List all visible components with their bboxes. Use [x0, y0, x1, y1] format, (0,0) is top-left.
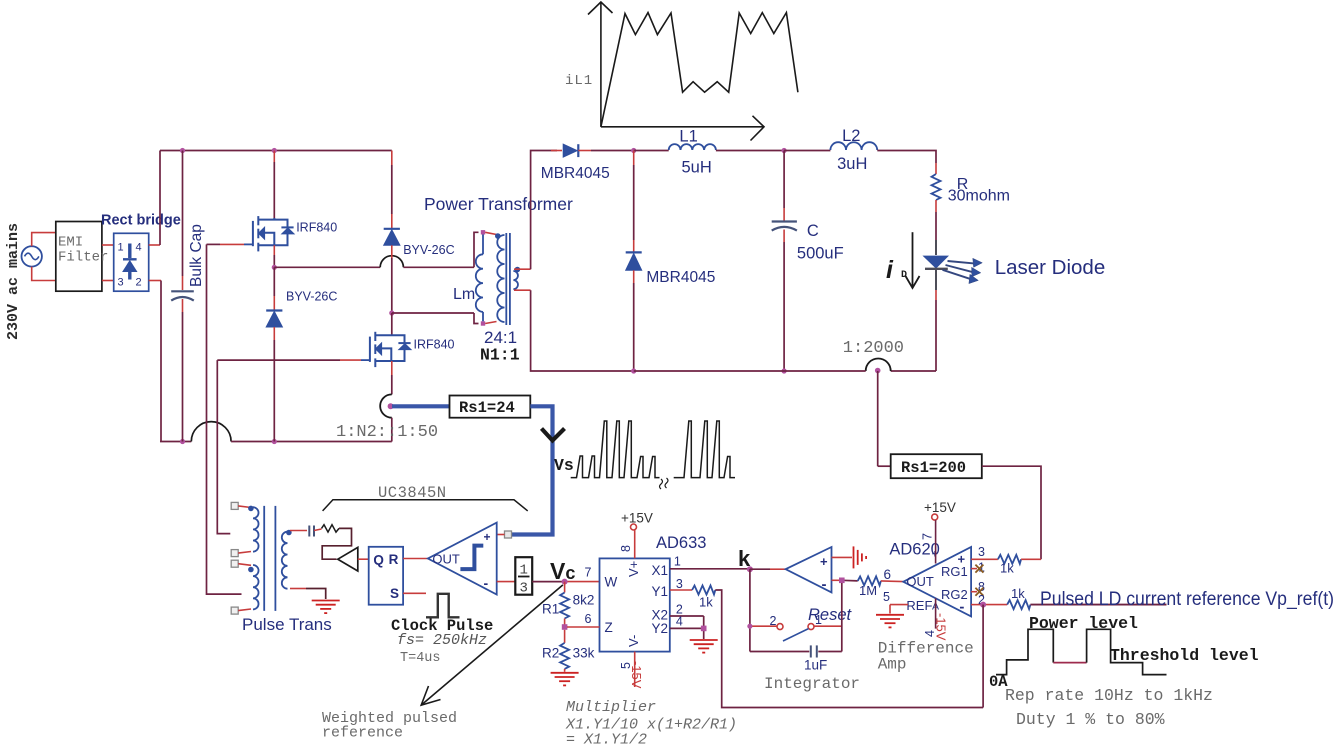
node bottom rail C: [782, 368, 787, 373]
Vs waveform group 1: [571, 421, 660, 478]
wire secondary left vertical lower: [531, 290, 634, 371]
svg-text:Y1: Y1: [652, 584, 669, 599]
resistor R2 33k: [564, 630, 566, 643]
node CT tap: [875, 368, 881, 374]
node top rail D4: [631, 148, 636, 153]
ground X2Y2: [690, 640, 718, 653]
flip-flop box: [369, 547, 403, 605]
svg-text:-: -: [822, 576, 827, 593]
Vs waveform group 2: [674, 421, 735, 478]
wire Y1 pin3 to 1k: [670, 589, 692, 591]
svg-text:Multiplier: Multiplier: [566, 699, 656, 716]
resistor R 30mohm: [935, 163, 937, 174]
inductor L2: [830, 142, 877, 150]
svg-text:3: 3: [676, 577, 683, 591]
wire primary bottom stub: [485, 322, 496, 324]
laser emission arrows: [943, 258, 983, 283]
core T1: [505, 233, 507, 325]
wire C node to L2: [784, 150, 830, 152]
svg-text:3: 3: [118, 277, 124, 289]
diode D4 MBR4045 (freewheel): [633, 151, 635, 166]
svg-text:BYV-26C: BYV-26C: [286, 290, 337, 304]
wire laser diode cathode down: [935, 269, 937, 290]
wire bottom rail right segment: [891, 370, 936, 372]
svg-text:8k2: 8k2: [573, 593, 595, 608]
buffer driver triangle: [338, 547, 358, 571]
node Rs1=24 tap: [388, 403, 394, 409]
wire R to laser diode: [935, 212, 937, 240]
step icon: [460, 546, 483, 570]
wire bridge pin4 to top rail: [149, 244, 160, 246]
pin T1 primary top: [481, 230, 485, 234]
wire Y2 pin4: [670, 627, 704, 629]
wire top rail: [160, 150, 392, 152]
diode D1 BYV-26C right: [391, 151, 393, 166]
svg-text:1: 1: [118, 242, 124, 254]
svg-text:iL1: iL1: [565, 73, 593, 89]
wire w2 bottom stub: [238, 609, 251, 611]
node Q1 source: [272, 265, 277, 270]
pin pulse trans w1 top: [231, 502, 238, 509]
wire bridge pin2 to bottom rail: [149, 280, 161, 282]
arrow i_D: [912, 232, 914, 287]
svg-text:1k: 1k: [1011, 586, 1025, 601]
svg-text:Pulse Trans: Pulse Trans: [242, 615, 332, 634]
node dot w2: [248, 567, 254, 573]
wire X1 pin1 to k: [670, 568, 750, 570]
svg-text:R2: R2: [542, 646, 559, 661]
svg-text:Lm: Lm: [453, 286, 475, 303]
node dot w1: [248, 506, 254, 512]
svg-text:Duty 1 % to 80%: Duty 1 % to 80%: [1016, 710, 1165, 729]
current transformer 1:2000 hop: [866, 358, 891, 371]
svg-text:24:1: 24:1: [484, 328, 517, 347]
svg-text:Integrator: Integrator: [764, 675, 860, 693]
svg-text:Y2: Y2: [652, 621, 669, 636]
svg-text:+: +: [484, 530, 491, 544]
svg-text:4: 4: [676, 615, 683, 629]
wire Q2 source to CT: [391, 361, 393, 375]
resistor 1k (Y1): [692, 586, 715, 595]
wire pin3: [971, 558, 998, 560]
svg-text:R1: R1: [542, 602, 559, 617]
svg-text:7: 7: [921, 533, 935, 540]
wire CT secondary down: [877, 371, 879, 466]
wire EMI to bridge bottom: [102, 280, 114, 282]
wire k down to reset row: [749, 569, 751, 651]
svg-text:k: k: [738, 546, 751, 571]
SECTION: ad633: [532, 511, 983, 746]
svg-text:D: D: [901, 270, 907, 281]
wire Q2 gate: [361, 359, 370, 361]
wire bottom rail to C node: [634, 370, 866, 372]
wire reset row right: [814, 625, 842, 627]
node reset left: [747, 624, 752, 629]
SECTION: integrator: [738, 546, 903, 693]
svg-text:Rep rate 10Hz to 1kHz: Rep rate 10Hz to 1kHz: [1005, 686, 1213, 705]
svg-text:1M: 1M: [859, 583, 877, 598]
svg-text:Q: Q: [373, 553, 384, 568]
node integrator output: [839, 578, 845, 584]
wire secondary bottom stub: [514, 289, 531, 291]
pin pulse trans w2 bottom: [231, 607, 238, 614]
wire bottom rail right: [231, 441, 392, 443]
inductor Lm: [482, 235, 484, 255]
node top rail / bulk cap: [180, 148, 185, 153]
node bottom rail / D2 anode: [272, 439, 277, 444]
node dot secondary top: [515, 267, 521, 273]
ground REF: [876, 615, 904, 628]
svg-text:R: R: [389, 552, 399, 567]
current transformer 1:N2 primary loop: [380, 394, 392, 417]
supply +15V AD633: [631, 524, 637, 530]
node pin2 feedback: [980, 602, 986, 608]
svg-text:AD633: AD633: [656, 534, 706, 552]
wire w1 bottom stub: [238, 552, 251, 554]
svg-text:OUT: OUT: [432, 552, 460, 567]
pin pulse trans w2 top: [231, 560, 238, 567]
winding T1 primary: [497, 235, 504, 322]
SECTION: iL1 waveform: [565, 2, 798, 141]
svg-text:500uF: 500uF: [797, 245, 844, 263]
svg-text:3uH: 3uH: [837, 155, 867, 173]
multiplier AD633 box: [600, 558, 670, 651]
winding pulse trans primary 2: [253, 565, 259, 609]
node D1 anode / transformer bottom: [389, 310, 394, 315]
wire AC top: [32, 233, 56, 247]
svg-text:33k: 33k: [573, 646, 595, 661]
wire mid node to transformer top (with hop): [274, 266, 380, 268]
capacitor C 500uF: [783, 151, 785, 209]
diode D3 MBR4045 (series, top rail): [551, 150, 562, 152]
svg-text:i: i: [886, 256, 894, 284]
svg-text:Reset: Reset: [808, 606, 853, 624]
EMI filter box: [56, 222, 102, 292]
svg-text:Rect bridge: Rect bridge: [101, 213, 181, 229]
svg-text:-: -: [959, 599, 964, 616]
svg-text:Filter: Filter: [58, 250, 108, 266]
wire Q1 source to mid node: [273, 245, 275, 255]
SECTION: right labels: [989, 588, 1334, 729]
svg-text:1:2000: 1:2000: [843, 339, 904, 358]
AC source V1: [22, 246, 42, 266]
wire Q1 gate: [244, 243, 253, 245]
svg-text:X1: X1: [652, 563, 669, 578]
wire secondary left vertical upper: [531, 151, 557, 270]
wire bulk cap branch upper: [182, 151, 184, 277]
resistor 1k (pin2): [1007, 600, 1030, 609]
svg-text:-15V: -15V: [629, 661, 644, 689]
svg-text:EMI: EMI: [58, 235, 83, 251]
wire Q1 gate drive vertical: [207, 244, 242, 594]
wire Rs1=200 to AD620 pin3: [982, 466, 1041, 559]
svg-text:3: 3: [520, 581, 528, 597]
wire integrator plus input to gnd: [832, 556, 853, 558]
wire secondary bottom to ground: [290, 588, 306, 590]
svg-text:S: S: [390, 586, 399, 601]
pin comparator plus input: [505, 531, 512, 538]
svg-text:= X1.Y1/2: = X1.Y1/2: [566, 732, 647, 746]
wire V- pin 5: [634, 652, 636, 687]
switch contact 1: [808, 624, 814, 630]
svg-text:Rs1=200: Rs1=200: [901, 459, 966, 477]
op-amp AD620: [903, 547, 971, 616]
svg-text:T=4us: T=4us: [400, 651, 441, 666]
svg-text:MBR4045: MBR4045: [541, 165, 610, 182]
svg-text:1uF: 1uF: [804, 658, 827, 673]
winding T1 secondary: [513, 271, 518, 289]
rectifier bridge B1: [114, 233, 149, 291]
wire 1/3 box to Vc to W pin: [532, 581, 564, 583]
wire w2 top stub: [238, 564, 251, 566]
inductor L1: [669, 144, 716, 150]
wire secondary top stub: [514, 268, 531, 270]
svg-text:2: 2: [136, 277, 142, 289]
arrow current into Vs: [542, 429, 565, 441]
svg-text:BYV-26C: BYV-26C: [403, 243, 454, 257]
svg-text:Laser Diode: Laser Diode: [995, 256, 1106, 279]
SECTION: primary bus: [160, 148, 479, 594]
svg-text:2: 2: [770, 614, 777, 628]
wire node to transformer bottom: [392, 312, 474, 314]
wire feedback riser: [982, 605, 984, 708]
wire R to comparator out: [403, 558, 428, 560]
UC3845N brace: [323, 500, 528, 511]
wire Vp_ref output: [1030, 604, 1166, 606]
svg-text:V+: V+: [626, 561, 641, 577]
ground pulse trans: [312, 601, 340, 614]
wire Q2 gate drive vertical: [217, 360, 230, 533]
SECTION: transformer: [424, 194, 573, 365]
wire 1k to Rs1=200 riser: [1021, 558, 1041, 560]
wire Y1 feedback down: [715, 590, 983, 708]
svg-text:1k: 1k: [1000, 561, 1014, 576]
svg-text:8: 8: [619, 545, 633, 552]
svg-text:IRF840: IRF840: [414, 338, 455, 352]
wire k to integrator apex: [750, 568, 770, 570]
arrow weighted pulsed reference: [421, 585, 563, 705]
node X2Y2: [701, 626, 707, 632]
clock pulse symbol: [426, 594, 460, 618]
resistor Rs1=24 box: [450, 396, 531, 418]
node top rail C: [782, 148, 787, 153]
wire bottom rail left: [160, 441, 191, 443]
node dot primary top: [495, 233, 501, 239]
svg-text:MBR4045: MBR4045: [646, 269, 715, 286]
wire bulk cap branch lower: [182, 299, 184, 312]
wire thick blue to comparator: [509, 406, 553, 534]
ground R2: [551, 673, 579, 686]
svg-text:5: 5: [883, 590, 890, 604]
svg-text:N1:1: N1:1: [480, 346, 520, 365]
SECTION: output filter: [531, 127, 1106, 374]
svg-text:W: W: [605, 575, 618, 590]
svg-text:Pulsed LD current reference Vp: Pulsed LD current reference Vp_ref(t): [1040, 588, 1334, 610]
wire cap row left: [750, 651, 809, 653]
wire X2 pin2: [670, 615, 704, 617]
capacitor 1uF: [810, 645, 812, 657]
wire cap to resistor: [314, 529, 322, 531]
svg-text:1k: 1k: [699, 595, 713, 610]
pin T1 primary bottom: [481, 321, 485, 325]
core pulse trans: [263, 506, 265, 611]
wire L1 to C node: [716, 150, 784, 152]
svg-text:+: +: [958, 552, 966, 567]
reference waveform staircase: [996, 629, 1053, 674]
winding pulse trans secondary: [282, 532, 288, 589]
resistor Rs1=200 box: [891, 454, 982, 478]
svg-text:+: +: [820, 554, 828, 569]
wire primary top stub: [485, 232, 496, 234]
node Vc: [562, 579, 568, 585]
svg-text:Bulk Cap: Bulk Cap: [188, 224, 205, 287]
resistor R1 8k2: [564, 582, 566, 593]
iL1 x-axis arrowhead: [751, 116, 765, 141]
wire 1M to AD620 out: [881, 580, 903, 583]
wire integrator fb vertical: [841, 583, 843, 652]
wire thick blue Rs1=24 left lead: [392, 404, 451, 408]
wire Z pin: [567, 626, 600, 628]
svg-text:230V ac mains: 230V ac mains: [5, 223, 22, 340]
comparator UC3845 PWM: [428, 523, 497, 595]
wire driver loop: [322, 528, 351, 559]
diode D2 BYV-26C lower-left: [273, 267, 275, 296]
iL1 x-axis: [601, 126, 764, 128]
svg-text:+15V: +15V: [924, 500, 956, 515]
svg-text:IRF840: IRF840: [296, 221, 337, 235]
node k: [747, 566, 753, 572]
svg-text:Rs1=24: Rs1=24: [459, 399, 515, 417]
pin pulse trans w1 bottom: [231, 550, 238, 557]
SECTION: ad620: [876, 500, 1167, 708]
svg-text:C: C: [807, 222, 819, 240]
wire REF to ground: [890, 604, 908, 606]
iL1 current waveform: [601, 13, 798, 127]
wire secondary top to cap: [290, 530, 307, 532]
wire top rail D4 to L1: [634, 150, 669, 152]
svg-text:+: +: [932, 549, 938, 561]
svg-text:Amp: Amp: [878, 656, 907, 674]
svg-text:6: 6: [585, 612, 592, 626]
wire w1 top stub: [238, 506, 251, 508]
resistor 1k (pin3): [998, 555, 1021, 564]
resistor 1M: [858, 576, 881, 585]
resistor damping zigzag: [322, 525, 340, 532]
wire integrator output: [832, 579, 842, 581]
svg-text:L2: L2: [842, 127, 860, 145]
SECTION: sense: [388, 371, 1041, 559]
switch contact 2: [777, 624, 783, 630]
laser diode LD: [924, 256, 948, 268]
svg-text:1:N2::1:50: 1:N2::1:50: [336, 423, 438, 442]
svg-text:30mohm: 30mohm: [948, 188, 1010, 205]
svg-text:OUT: OUT: [906, 574, 934, 589]
wire cap row right: [818, 651, 842, 653]
svg-text:Power level: Power level: [1029, 614, 1138, 633]
node dot secondary: [286, 530, 292, 536]
node top rail / Q1 drain: [272, 148, 277, 153]
SECTION: mains input: [5, 151, 181, 442]
divider 1/3 box: [515, 557, 532, 595]
iL1 y-axis: [600, 3, 602, 127]
Vs waveform break squiggle: [660, 478, 669, 489]
wire V+ pin 8: [634, 530, 636, 558]
ground rotated integrator: [854, 546, 867, 568]
svg-text:Power Transformer: Power Transformer: [424, 194, 573, 214]
op-amp integrator: [786, 547, 832, 592]
wire X2-Y2 tie to ground: [703, 616, 705, 639]
transistor Q2 IRF840: [370, 332, 411, 367]
SECTION: pulse trans + uc3845: [231, 484, 563, 742]
svg-text:4: 4: [136, 242, 142, 254]
transistor Q1 IRF840: [253, 216, 294, 251]
svg-text:7: 7: [585, 566, 592, 580]
node bottom rail D4: [631, 368, 636, 373]
svg-text:3: 3: [978, 545, 985, 559]
node R1/R2/Z: [562, 624, 568, 630]
svg-text:Z: Z: [605, 620, 613, 635]
svg-text:-: -: [484, 575, 489, 591]
svg-text:UC3845N: UC3845N: [378, 484, 447, 502]
wire comparator minus to 1/3 box: [497, 581, 516, 583]
svg-text:-15V: -15V: [934, 613, 949, 641]
svg-text:+15V: +15V: [621, 511, 653, 526]
svg-text:V-: V-: [626, 635, 641, 647]
wire node to Q2 drain: [391, 313, 393, 335]
wire hop over gate wires on bottom rail: [191, 422, 231, 442]
wire S input: [403, 592, 426, 594]
svg-text:Threshold level: Threshold level: [1110, 646, 1259, 665]
node bottom rail / bulk cap: [180, 439, 185, 444]
V- lead AD620: [935, 598, 937, 628]
wire pin2 minus input: [971, 604, 983, 606]
wire Q1 drain branch: [273, 151, 275, 163]
capacitor coupling: [308, 526, 310, 537]
svg-text:Vs: Vs: [554, 456, 574, 475]
wire AC bottom: [32, 267, 56, 281]
svg-text:fs= 250kHz: fs= 250kHz: [397, 632, 487, 649]
wire driver to QR box: [358, 558, 369, 560]
wire L2 to R corner: [877, 151, 936, 164]
svg-text:1: 1: [674, 555, 681, 569]
iL1 y-axis arrowhead: [588, 2, 613, 15]
switch blade: [783, 629, 809, 641]
svg-text:reference: reference: [322, 725, 403, 742]
wire reset row left: [750, 625, 777, 627]
svg-text:6: 6: [884, 567, 892, 582]
svg-text:L1: L1: [679, 128, 697, 146]
svg-text:5uH: 5uH: [682, 159, 712, 177]
capacitor Bulk Cap: [171, 290, 194, 292]
bridge diode symbol: [123, 244, 137, 280]
wire EMI to bridge top: [102, 244, 114, 246]
winding pulse trans primary 1: [253, 507, 259, 551]
svg-text:REF: REF: [906, 598, 932, 613]
